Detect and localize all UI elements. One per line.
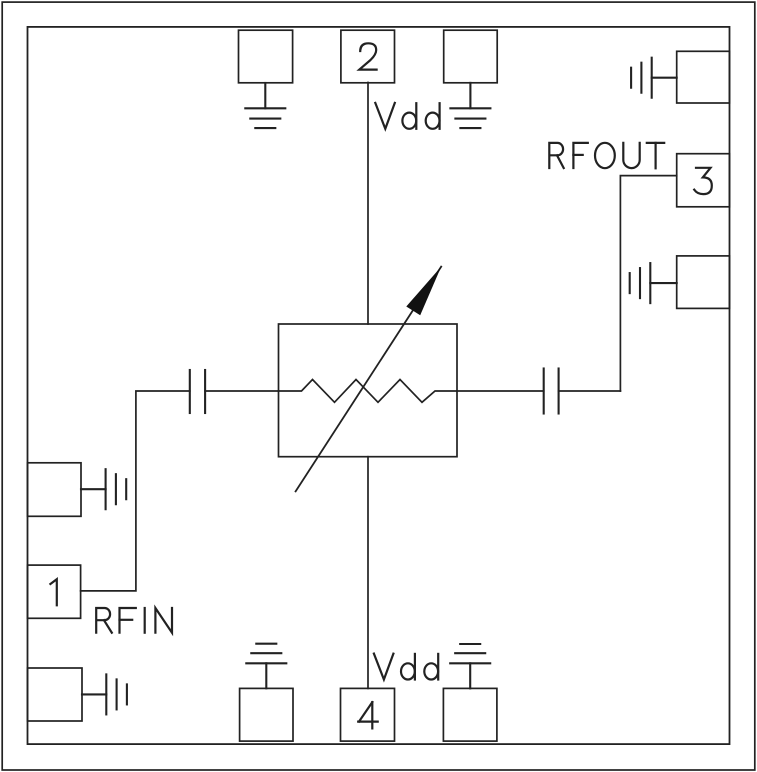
adjustment arrow shaft <box>296 267 442 492</box>
pad 1 RFIN <box>28 565 81 618</box>
pin number 1 <box>50 579 56 605</box>
wire attenuator to pad 4 <box>367 457 369 689</box>
label Vdd (top) <box>375 103 439 129</box>
pad top-right ground pad <box>444 30 498 83</box>
pin number 2 <box>359 43 376 69</box>
wire input cap to attenuator <box>205 390 278 392</box>
wire Vdd top to attenuator <box>367 83 369 325</box>
ground <box>246 644 286 689</box>
pin number 4 <box>358 702 378 728</box>
pad bottom-left ground pad <box>240 688 293 741</box>
pin number 3 <box>694 168 712 194</box>
input DC blocking capacitor <box>190 370 205 413</box>
variable resistor element <box>279 380 458 403</box>
attenuator box <box>279 324 458 457</box>
wire output cap to pad3 riser <box>559 390 621 392</box>
bypass capacitor to ground (sideways) <box>81 469 126 509</box>
pad 2 Vdd <box>341 30 395 83</box>
adjustment arrow head <box>406 267 441 316</box>
wire attenuator to output cap <box>457 390 544 392</box>
wire RFIN to input cap <box>81 391 190 591</box>
label Vdd (bottom) <box>374 654 438 680</box>
ground <box>245 83 285 128</box>
bypass capacitor to ground (sideways) <box>630 263 677 303</box>
pad 3 RFOUT <box>677 154 730 207</box>
ground <box>450 83 490 128</box>
pad bottom-right ground pad <box>443 688 497 741</box>
label RFIN <box>96 608 172 633</box>
bypass capacitor to ground (sideways) <box>631 58 677 98</box>
label RFOUT <box>549 143 664 169</box>
pad top-right corner bypass pad <box>677 51 730 103</box>
pad left-lower bypass pad <box>28 668 83 721</box>
pad top-left ground pad <box>239 30 293 83</box>
pad right-middle bypass pad <box>677 256 730 309</box>
pad left-upper bypass pad <box>28 463 82 517</box>
output DC blocking capacitor <box>544 369 559 414</box>
ground <box>450 644 490 688</box>
bypass capacitor to ground (sideways) <box>82 674 127 714</box>
wire pad3 to output capacitor <box>620 176 676 391</box>
pad 4 Vdd <box>341 688 395 741</box>
